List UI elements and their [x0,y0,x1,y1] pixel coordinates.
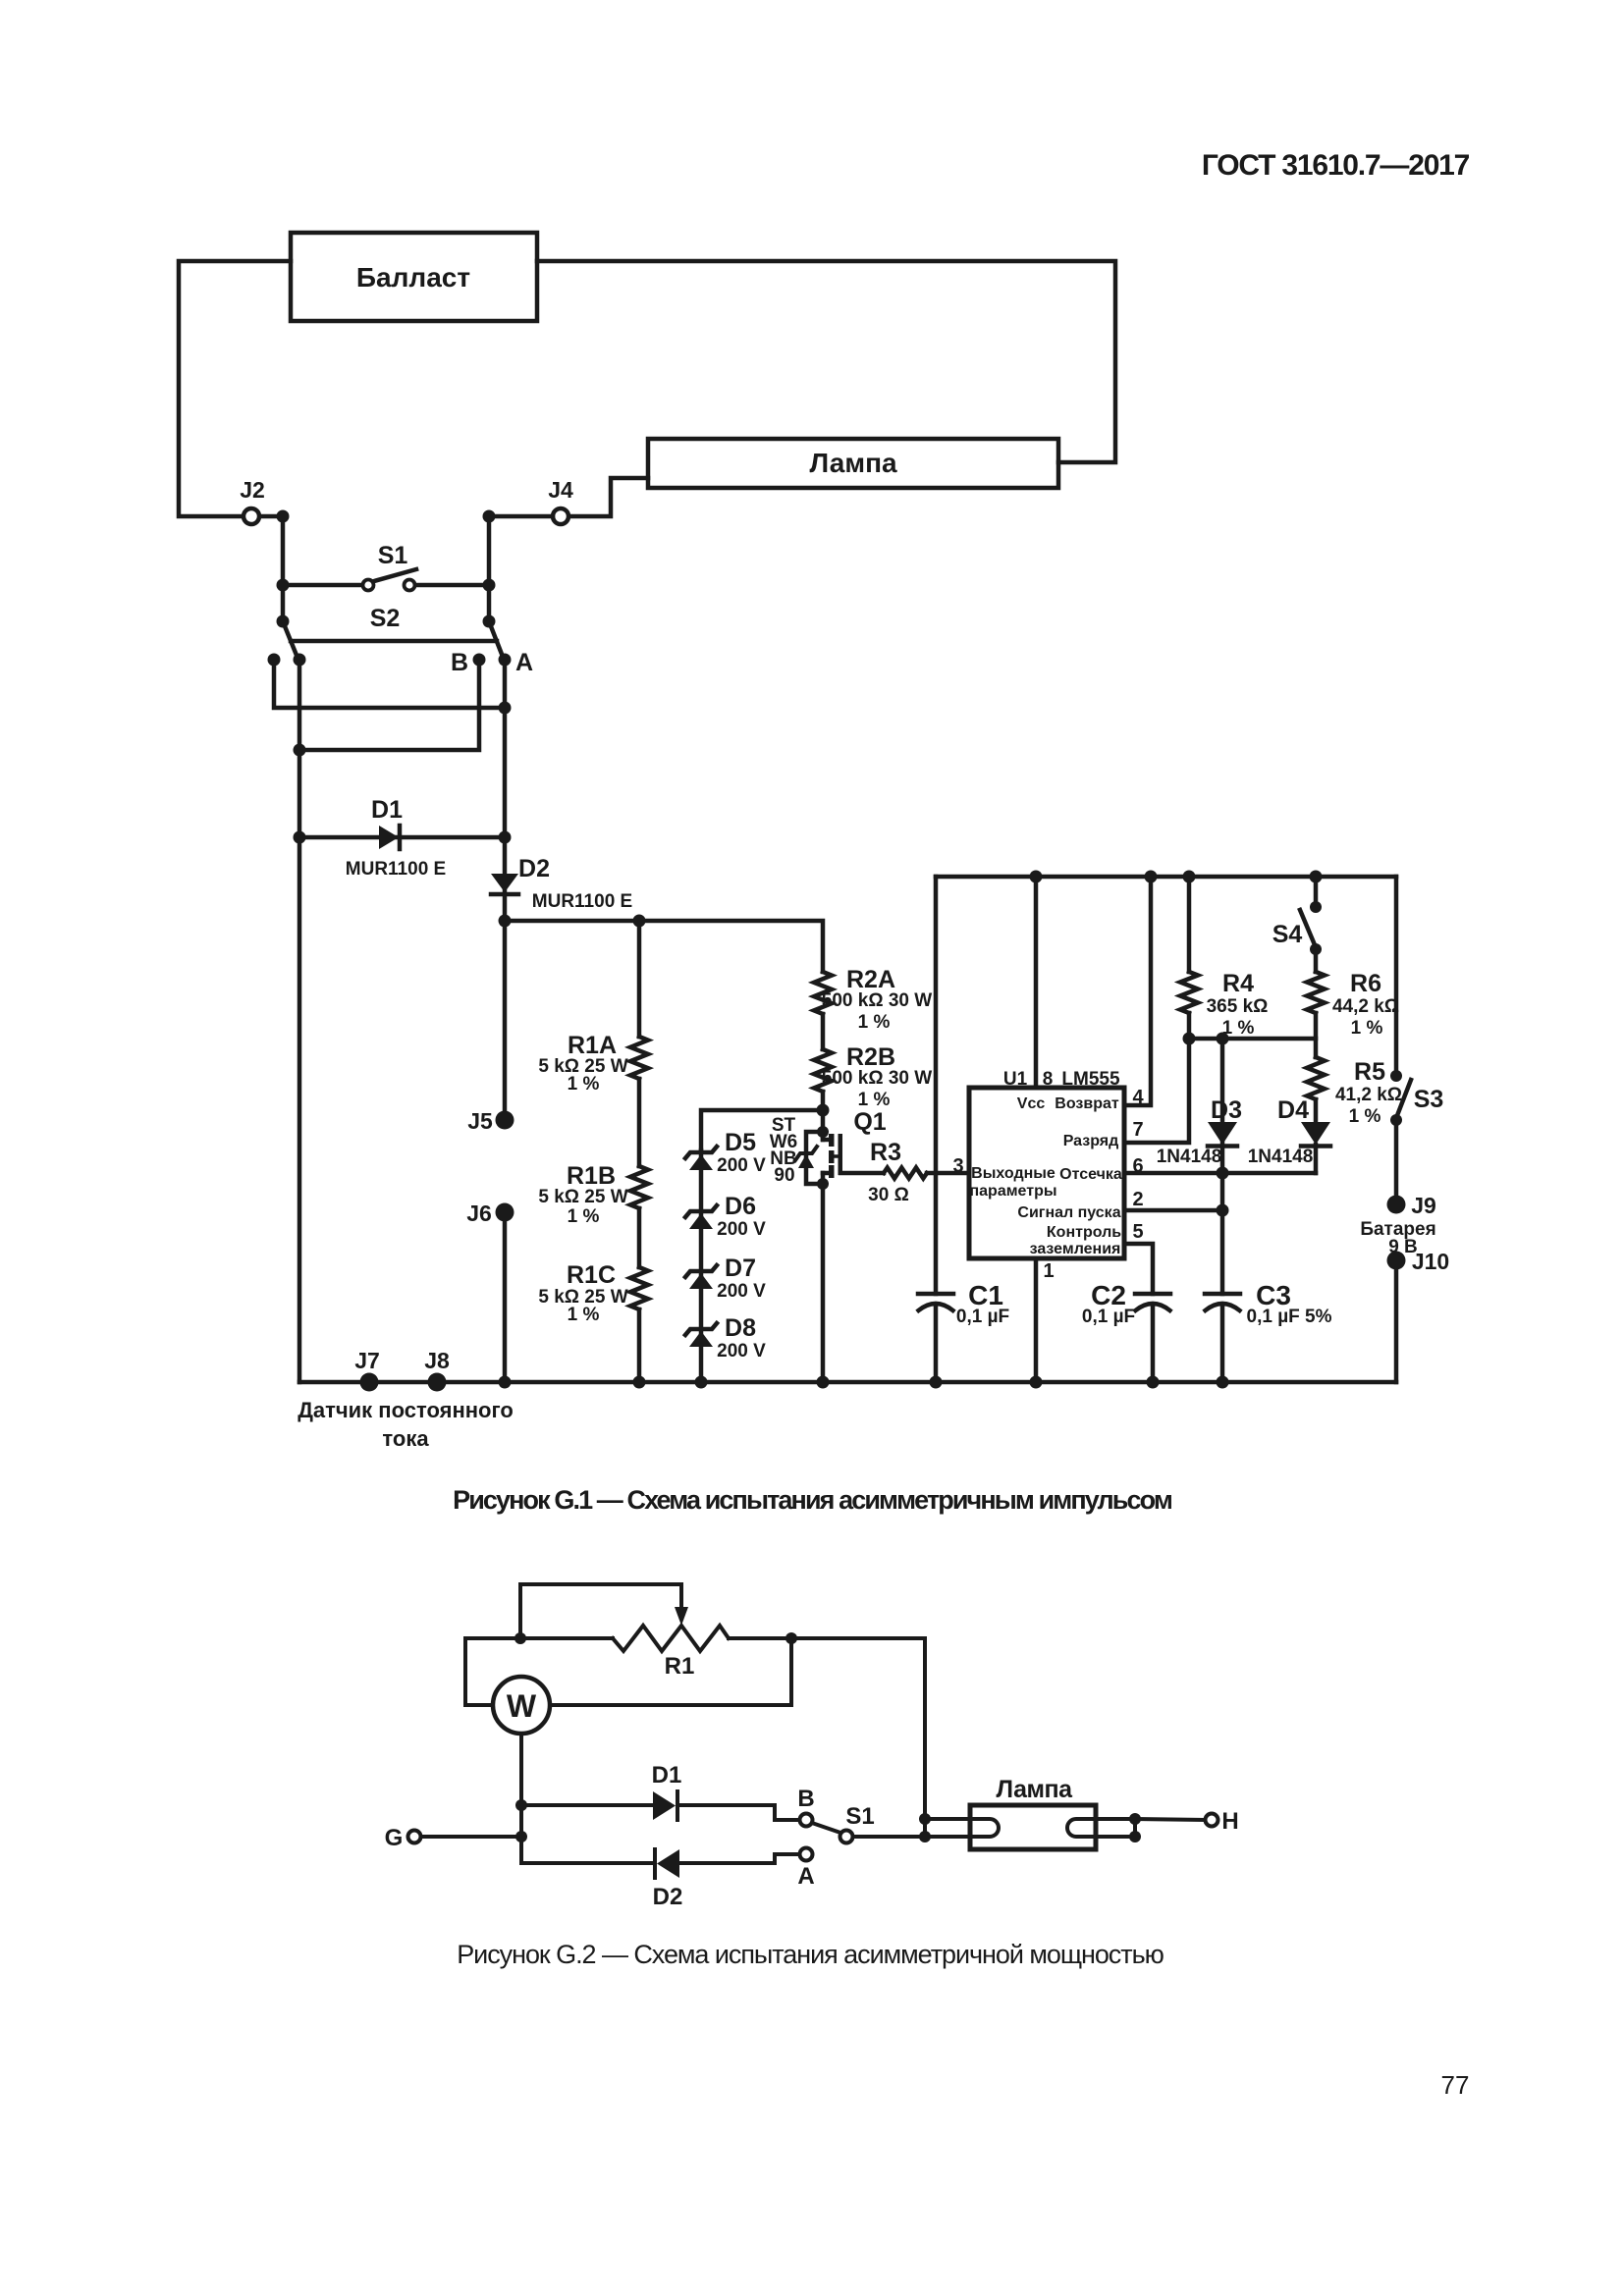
connector J2 [244,508,259,524]
node rail x=1174 [1147,1376,1160,1389]
svg-text:Рисунок G.2 — Схема испытания: Рисунок G.2 — Схема испытания асимметрич… [457,1940,1164,1969]
svg-text:Разряд: Разряд [1063,1133,1119,1149]
node left vertical at 764 [294,744,306,757]
wire into lamp top [925,1817,970,1821]
svg-text:500 kΩ 30 W: 500 kΩ 30 W [822,990,932,1011]
switch S2 [277,605,504,658]
wire R1 right to lamp column [791,1638,925,1837]
node at J2 branch [277,510,290,523]
svg-text:D4: D4 [1277,1096,1309,1124]
S2 contact A [499,654,512,667]
svg-text:Лампа: Лампа [809,448,897,478]
wire wiper top loop [520,1584,681,1638]
svg-text:J10: J10 [1412,1249,1449,1274]
svg-text:1 %: 1 % [1349,1106,1381,1127]
svg-text:1 %: 1 % [568,1074,600,1095]
wire Q1 source to ground rail [821,1173,826,1382]
wiper arrow of R1 [675,1607,688,1626]
svg-text:D2: D2 [653,1884,683,1910]
resistor R3 [868,1139,927,1205]
svg-text:D1: D1 [652,1762,682,1789]
svg-text:1 %: 1 % [858,1090,891,1110]
switch S3 [1390,1070,1443,1126]
wire zener chain top [701,1110,823,1150]
lamp box (Лампа) [648,439,1058,488]
svg-text:J7: J7 [354,1348,380,1373]
svg-text:1 %: 1 % [1351,1018,1383,1039]
wire Q1 gate to R3 [840,1171,884,1176]
wire zener chain vertical [699,1150,704,1382]
capacitor C2 [1082,1280,1170,1382]
svg-text:2: 2 [1132,1189,1143,1210]
svg-text:Q1: Q1 [853,1108,886,1136]
svg-text:H: H [1221,1808,1238,1835]
svg-text:заземления: заземления [1030,1241,1121,1257]
wire lamp out bottom [1096,1819,1135,1837]
connector J4 [553,508,568,524]
node A-line junction [499,702,512,715]
node D1 left [294,831,306,844]
zener diode D8 [685,1314,766,1362]
node R1 right [785,1632,797,1644]
wire W bottom [519,1734,523,1805]
svg-text:S1: S1 [378,542,408,569]
wire to terminal H [1135,1819,1205,1820]
svg-text:D7: D7 [725,1255,756,1282]
wire S2 left-right contact down [298,660,302,1382]
svg-text:200 V: 200 V [717,1281,766,1302]
node D3 at pin6 [1217,1167,1229,1180]
diode D2 MUR1100E [491,855,632,912]
wire J10 to ground rail [1394,1260,1399,1382]
wire D1 row [299,835,505,840]
svg-text:Рисунок G.1 — Схема испытания: Рисунок G.1 — Схема испытания асимметрич… [453,1485,1172,1515]
svg-text:365 kΩ: 365 kΩ [1207,996,1269,1017]
svg-text:Возврат: Возврат [1055,1095,1119,1112]
diode D2 branch [521,1849,799,1910]
pin 7 wire [1124,1039,1189,1143]
svg-text:U1: U1 [1003,1069,1028,1090]
svg-text:Лампа: Лампа [996,1776,1073,1803]
svg-text:S3: S3 [1414,1086,1444,1113]
resistor R6 [1307,949,1399,1057]
node R1A top [633,915,646,928]
svg-text:7: 7 [1132,1119,1143,1141]
wire D3 vertical [1220,1039,1225,1210]
wattmeter W [493,1677,550,1734]
svg-text:30 Ω: 30 Ω [868,1185,909,1205]
svg-text:G: G [385,1825,404,1851]
svg-text:MUR1100 E: MUR1100 E [346,859,446,880]
resistor R1C [538,1208,648,1382]
svg-text:S2: S2 [370,605,401,632]
svg-text:R1C: R1C [567,1261,616,1289]
svg-text:6: 6 [1132,1155,1143,1177]
terminal J7 [360,1373,379,1392]
wire cross link to B contact [299,660,479,750]
svg-text:1 %: 1 % [568,1206,600,1227]
pin 8 wire [1034,877,1039,1088]
svg-text:параметры: параметры [969,1183,1056,1200]
node G [515,1831,527,1842]
svg-text:1N4148: 1N4148 [1157,1147,1222,1167]
node R4 bottom [1183,1033,1196,1045]
svg-text:77: 77 [1441,2070,1470,2100]
svg-text:ГОСТ 31610.7—2017: ГОСТ 31610.7—2017 [1202,149,1470,182]
node lamp out bottom [1129,1831,1141,1842]
contact B [800,1814,813,1827]
svg-text:3: 3 [952,1155,963,1177]
wire G to node [421,1835,521,1839]
node rail x=1245 [1217,1376,1229,1389]
svg-text:500 kΩ 30 W: 500 kΩ 30 W [822,1068,932,1089]
pin 6 wire [1124,1171,1316,1176]
svg-text:1 %: 1 % [858,1012,891,1033]
svg-text:5: 5 [1132,1221,1143,1243]
svg-text:200 V: 200 V [717,1155,766,1176]
switch S1 [277,542,496,592]
node at J4 branch [483,510,496,523]
svg-text:J2: J2 [240,477,265,503]
node lamp bottom [919,1831,931,1842]
svg-text:D8: D8 [725,1314,756,1342]
potentiometer R1 [520,1626,791,1680]
wire A contact down to J5 [503,660,508,1120]
svg-text:D1: D1 [371,796,403,824]
contact A [800,1848,813,1861]
svg-text:R3: R3 [870,1139,901,1166]
wire J6 to ground rail [503,1212,508,1382]
wire lamp-left to J4 [568,478,648,516]
svg-text:J8: J8 [424,1348,450,1373]
pin 4 wire [1124,877,1151,1105]
node Q1 drain [817,1126,829,1138]
svg-text:Сигнал пуска: Сигнал пуска [1017,1204,1120,1221]
svg-text:1: 1 [1043,1260,1054,1282]
svg-text:R1A: R1A [568,1032,617,1059]
terminal J8 [428,1373,447,1392]
resistor R5 [1307,1057,1402,1127]
terminal G [408,1831,421,1843]
node rail x=714 [695,1376,708,1389]
transistor Q1 (MOSFET) [770,1108,887,1382]
svg-text:LM555: LM555 [1061,1069,1120,1090]
diode Q1 body zener [798,1154,814,1168]
node D1 right [499,831,512,844]
lamp box (Лампа, figure G.2) [970,1776,1096,1849]
wire S2 left-left contact to A-line [274,660,505,708]
wire Vcc top rail [936,875,1396,880]
svg-text:J9: J9 [1411,1193,1436,1218]
svg-text:200 V: 200 V [717,1341,766,1362]
pin 2 wire [1124,1208,1222,1213]
node lamp out top [1129,1813,1141,1825]
wire C1 top (rail left end) [934,877,939,1294]
svg-text:D6: D6 [725,1193,756,1220]
S2 contact left-left [268,654,281,667]
node rail x=838 [817,1376,830,1389]
capacitor C1 [918,1280,1009,1382]
svg-text:A: A [797,1863,814,1890]
svg-text:Отсечка: Отсечка [1059,1166,1122,1183]
wire C3 top [1220,1210,1225,1294]
wire R3 to pin 3 [927,1171,969,1176]
svg-text:Датчик постоянного: Датчик постоянного [298,1398,514,1422]
svg-text:J4: J4 [548,477,573,503]
svg-text:MUR1100 E: MUR1100 E [532,891,632,912]
svg-text:R5: R5 [1354,1058,1385,1086]
diode D3 1N4148 [1157,1096,1242,1167]
svg-text:B: B [451,649,468,676]
zener diode D5 [685,1129,766,1176]
svg-text:D2: D2 [518,855,550,882]
svg-text:1N4148: 1N4148 [1248,1147,1314,1167]
wire Q1 body-diode loop [806,1132,823,1184]
svg-text:S1: S1 [845,1803,874,1830]
wire Q1 drain lead [821,1110,826,1140]
node rail x=651 [633,1376,646,1389]
diode D1 MUR1100E [346,796,446,880]
wire S3 to J9 [1394,1120,1399,1204]
wire right border top [1394,877,1399,1076]
wire ballast-left to J2 [179,261,291,516]
svg-text:W: W [507,1688,537,1724]
resistor R2B [814,1014,932,1110]
terminal J5 [496,1111,514,1130]
zener diode D6 [685,1193,766,1240]
zener diode D7 [685,1255,766,1302]
op-amp U1 LM555 box [969,1069,1124,1258]
svg-text:J6: J6 [466,1201,492,1226]
svg-text:5 kΩ 25 W: 5 kΩ 25 W [538,1187,627,1207]
wire left drop J2 to S2 pivot [281,516,286,621]
node lamp top [919,1813,931,1825]
svg-text:D3: D3 [1211,1096,1242,1124]
pin 5 wire [1124,1244,1153,1294]
wire into lamp bottom [925,1835,970,1839]
svg-text:Vcc: Vcc [1017,1095,1046,1112]
terminal J9 [1387,1196,1406,1214]
svg-text:8: 8 [1043,1069,1054,1090]
svg-text:200 V: 200 V [717,1219,766,1240]
wire J2 to node [260,514,283,519]
node rail x=514 [499,1376,512,1389]
pin 1 wire [1034,1258,1039,1382]
svg-text:41,2 kΩ: 41,2 kΩ [1335,1085,1402,1105]
resistor R2A [814,966,932,1033]
resistor R4 [1180,871,1268,1040]
diode D4 1N4148 [1248,1096,1330,1173]
svg-text:0,1 µF: 0,1 µF [956,1307,1009,1327]
wire ground rail [299,1380,1396,1385]
node Q1 source [817,1178,829,1190]
svg-text:Балласт: Балласт [356,262,470,293]
Q1 gate bar [839,1134,843,1175]
svg-text:D5: D5 [725,1129,756,1156]
svg-text:B: B [797,1786,814,1812]
wire D2 node to R2A column [505,921,823,972]
node D3 top [1217,1033,1229,1045]
ballast box (Балласт) [291,233,537,321]
Q1 channel bar segments [823,1138,831,1143]
svg-text:R1B: R1B [567,1162,616,1190]
resistor R1A [538,921,648,1095]
svg-text:0,1 µF: 0,1 µF [1082,1307,1135,1327]
S2 contact B [473,654,486,667]
resistor R1B [538,1079,648,1227]
lamp left filament [970,1819,999,1837]
svg-text:44,2 kΩ: 44,2 kΩ [1332,996,1399,1017]
terminal J10 [1387,1252,1406,1270]
svg-text:тока: тока [382,1426,429,1451]
lamp right filament [1067,1819,1096,1837]
svg-text:4: 4 [1132,1087,1144,1108]
capacitor C3 [1205,1280,1332,1382]
wire right drop J4 to S2 pivot [487,516,492,621]
svg-text:R2B: R2B [846,1043,895,1071]
svg-text:R4: R4 [1222,970,1254,997]
wire W left loop [465,1638,520,1705]
switch S1 (figure G.2) [812,1803,875,1843]
switch S4 [1272,871,1323,956]
svg-text:J5: J5 [467,1108,493,1134]
node rail x=953 [930,1376,943,1389]
svg-text:A: A [515,649,533,676]
node W/D1 [515,1799,527,1811]
node below D2 [499,915,512,928]
svg-text:1 %: 1 % [568,1305,600,1325]
diode D1 branch [521,1762,799,1820]
node rail x=1055 [1030,1376,1043,1389]
svg-text:R1: R1 [665,1653,695,1680]
svg-text:S4: S4 [1272,921,1303,948]
terminal J6 [496,1203,514,1222]
wire J4 to node [489,514,553,519]
svg-text:Контроль: Контроль [1047,1224,1121,1241]
svg-text:R6: R6 [1350,970,1381,997]
wire left column [519,1805,523,1863]
wire R4/R5 junction row [1189,1037,1316,1041]
wire lamp out top [1096,1817,1135,1821]
svg-text:90: 90 [774,1165,794,1186]
svg-text:Выходные: Выходные [971,1165,1056,1182]
node R1 left [514,1632,526,1644]
wire S1 to lamp [853,1835,925,1839]
wire W right loop [550,1638,791,1705]
wire ballast-right to lamp-right [537,261,1115,462]
svg-text:R2A: R2A [846,966,895,993]
S2 contact left-right [294,654,306,667]
node R2B bottom / gate feed [817,1104,830,1117]
terminal H [1206,1814,1218,1827]
svg-text:0,1 µF 5%: 0,1 µF 5% [1247,1307,1332,1327]
